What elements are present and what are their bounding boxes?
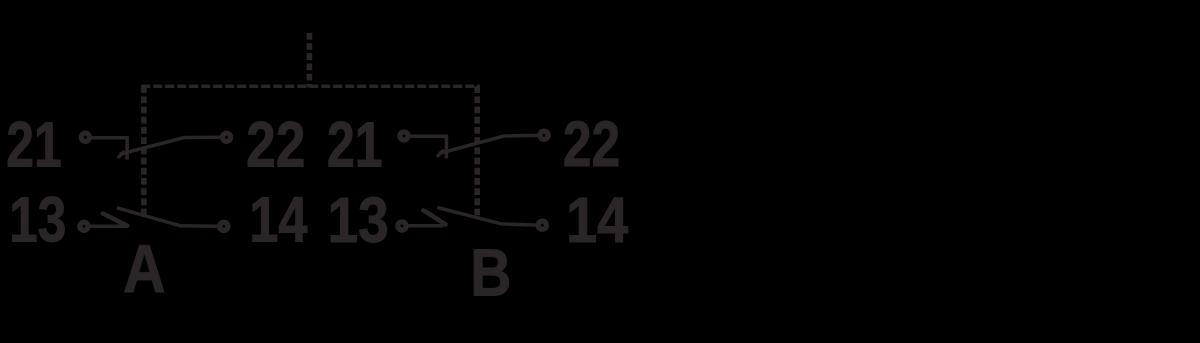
node: terminal 14 (block A) bbox=[217, 220, 230, 233]
wire: blade tip tick NC (block B) bbox=[438, 151, 443, 156]
svg-text:14: 14 bbox=[249, 185, 308, 256]
wire: dashed actuator riser to block A bbox=[141, 86, 147, 217]
label: terminal 21 block A bbox=[6, 110, 61, 181]
wire: lead from 13 (block B) bbox=[402, 224, 443, 228]
node: terminal 22 (block A) bbox=[220, 131, 233, 144]
label: terminal 13 block A bbox=[9, 184, 66, 256]
svg-text:14: 14 bbox=[566, 184, 629, 255]
label: terminal 14 block B bbox=[566, 184, 629, 255]
label: contact block A bbox=[123, 232, 165, 307]
svg-text:22: 22 bbox=[246, 110, 305, 181]
wire: fixed-contact seat tick NO (block A) bbox=[103, 214, 127, 226]
label: terminal 22 block B bbox=[563, 109, 620, 181]
svg-text:21: 21 bbox=[6, 110, 61, 181]
node: terminal 21 (block B) bbox=[397, 129, 410, 142]
node: terminal 21 (block A) bbox=[79, 131, 92, 144]
wire: lead from 13 (block A) bbox=[84, 225, 127, 229]
svg-text:21: 21 bbox=[327, 110, 383, 181]
svg-text:13: 13 bbox=[9, 184, 66, 256]
node: terminal 14 (block B) bbox=[536, 219, 549, 232]
svg-text:A: A bbox=[123, 232, 165, 307]
wire: dashed actuator top stub bbox=[307, 33, 313, 88]
svg-text:22: 22 bbox=[563, 109, 620, 181]
node: terminal 22 (block B) bbox=[537, 129, 550, 142]
label: contact block B bbox=[470, 236, 511, 310]
wire: NC moving blade 21-22 (block A) bbox=[120, 137, 227, 154]
wire: NO moving blade 13-14 (block A) bbox=[117, 208, 224, 227]
node: terminal 13 (block A) bbox=[77, 220, 90, 233]
label: terminal 21 block B bbox=[327, 110, 383, 181]
wire: NC moving blade 21-22 (block B) bbox=[439, 135, 544, 153]
wire: fixed-contact seat tick NO (block B) bbox=[423, 210, 445, 224]
svg-text:13: 13 bbox=[328, 184, 389, 256]
node: terminal 13 (block B) bbox=[395, 219, 408, 232]
svg-text:B: B bbox=[470, 236, 511, 310]
wire: lead from 21 with fixed-contact corner (block B) bbox=[404, 136, 446, 158]
wire: lead from 21 with fixed-contact corner (block A) bbox=[85, 138, 127, 160]
wire: dashed actuator riser to block B bbox=[474, 86, 480, 218]
label: terminal 13 block B bbox=[328, 184, 389, 256]
wire: NO moving blade 13-14 (block B) bbox=[437, 207, 542, 225]
wire: blade tip tick NC (block A) bbox=[119, 152, 124, 157]
wire: dashed actuator horizontal bar bbox=[141, 84, 480, 88]
label: terminal 14 block A bbox=[249, 185, 308, 256]
label: terminal 22 block A bbox=[246, 110, 305, 181]
